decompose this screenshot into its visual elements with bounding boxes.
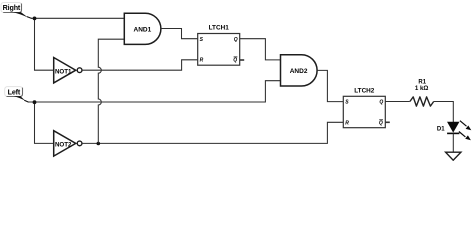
- wire LTCH2 Qbar stub: [385, 121, 390, 123]
- svg-text:1 kΩ: 1 kΩ: [415, 85, 429, 92]
- wire LED to ground: [452, 133, 454, 152]
- wire AND1 output to LTCH1 S: [161, 29, 198, 39]
- and-gate AND2: [281, 55, 318, 86]
- svg-text:LTCH2: LTCH2: [354, 87, 375, 94]
- wire R1 to LED D1: [434, 102, 454, 123]
- svg-text:Q: Q: [379, 100, 383, 106]
- wire LTCH2 Q to resistor R1: [385, 101, 410, 103]
- node Right junction: [33, 17, 37, 21]
- wire NOT1 output to LTCH1 R: [82, 60, 198, 70]
- svg-text:Left: Left: [8, 88, 21, 96]
- wire NOT2 output to LTCH2 R: [82, 122, 343, 143]
- svg-text:NOT2: NOT2: [55, 142, 72, 149]
- LED emission arrows: [460, 121, 467, 127]
- node Left junction: [33, 100, 37, 104]
- wire Right vertical to NOT1 input: [35, 18, 54, 70]
- svg-text:Q: Q: [233, 58, 237, 64]
- svg-text:Right: Right: [3, 4, 21, 12]
- svg-text:AND1: AND1: [134, 27, 152, 34]
- inverter NOT2: [54, 131, 82, 156]
- svg-text:LTCH1: LTCH1: [209, 25, 230, 32]
- latch LTCH1: [198, 25, 240, 66]
- LED D1: [437, 121, 471, 141]
- ground: [446, 152, 461, 160]
- wire Right to AND1 top input: [31, 17, 124, 19]
- input flag Left: [5, 87, 29, 103]
- node NOT2 output junction: [97, 142, 101, 146]
- wire AND1 bottom input from NOT2 output (vertical hops over crossings): [98, 39, 124, 143]
- wire Left vertical to NOT2 input: [35, 102, 54, 143]
- svg-text:R: R: [200, 58, 204, 64]
- latch LTCH2: [343, 87, 385, 127]
- wire Left to AND2 bottom input: [28, 81, 281, 102]
- wire LTCH1 Qbar stub: [240, 59, 245, 61]
- svg-text:AND2: AND2: [290, 68, 308, 75]
- svg-text:R: R: [345, 120, 349, 126]
- svg-text:Q: Q: [234, 37, 238, 43]
- resistor R1: [410, 80, 434, 107]
- wire LTCH1 Q to AND2 top input: [240, 39, 281, 60]
- inverter NOT1: [54, 58, 82, 83]
- svg-text:Q: Q: [379, 120, 383, 126]
- and-gate AND1: [124, 13, 161, 44]
- wire AND2 output to LTCH2 S: [317, 70, 343, 101]
- input flag Right: [1, 3, 32, 19]
- svg-text:NOT1: NOT1: [55, 68, 72, 75]
- svg-text:D1: D1: [437, 126, 445, 132]
